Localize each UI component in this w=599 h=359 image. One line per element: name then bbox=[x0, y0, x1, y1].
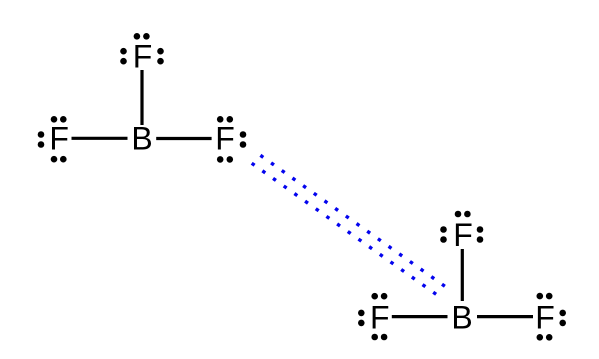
bond B2-F2top bbox=[461, 249, 464, 301]
lone pairs F2 top bbox=[440, 211, 483, 243]
lone pairs F2 right bbox=[537, 293, 567, 341]
dotted line lower bbox=[253, 164, 435, 294]
svg-text:F: F bbox=[215, 121, 235, 157]
bond B1-F1right bbox=[156, 137, 211, 140]
svg-text:B: B bbox=[451, 299, 472, 335]
svg-text:F: F bbox=[535, 299, 555, 335]
svg-text:B: B bbox=[131, 121, 152, 157]
lone pairs F1 top bbox=[120, 33, 164, 65]
svg-text:F: F bbox=[49, 121, 69, 157]
bond B1-F1top bbox=[140, 70, 143, 125]
svg-text:F: F bbox=[453, 217, 473, 253]
lone pairs F1 left bbox=[38, 116, 67, 163]
bond B2-F2right bbox=[477, 315, 533, 318]
bond B1-F1left bbox=[72, 137, 128, 140]
svg-text:F: F bbox=[133, 38, 153, 74]
svg-text:F: F bbox=[370, 299, 390, 335]
lone pairs F1 right bbox=[217, 116, 246, 163]
dotted interaction line (double) bbox=[253, 156, 444, 293]
bond B2-F2left bbox=[392, 315, 448, 318]
dotted line upper bbox=[262, 156, 444, 285]
lone pairs F2 left bbox=[358, 293, 387, 340]
